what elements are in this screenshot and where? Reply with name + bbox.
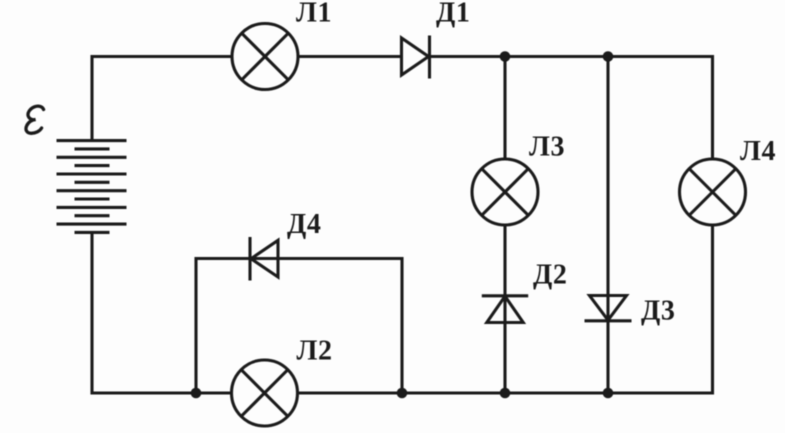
battery E: short plate 2 <box>75 164 110 167</box>
diode D1 <box>402 36 430 79</box>
wire: bypass loop around lamp L2 with diode D4 <box>196 259 402 394</box>
label EMF script E <box>26 106 44 133</box>
battery E: short plate 3 <box>75 181 110 184</box>
lamp L2 <box>232 360 298 426</box>
svg-text:Л4: Л4 <box>740 136 776 167</box>
svg-text:Л3: Л3 <box>529 132 565 163</box>
battery E: long plate 5 <box>57 206 127 209</box>
wire: diode D3 branch full vertical <box>606 57 609 394</box>
battery E: long plate 4 <box>57 189 127 192</box>
wire: left vertical from battery top up and top wire to lamp L1 <box>92 57 232 142</box>
wire: lamp L2 left lead along bottom wire to bottom-left corner, up to battery bottom <box>92 233 232 394</box>
junction dot on top wire at D3 branch <box>603 51 614 62</box>
diode D2 <box>482 296 528 323</box>
battery E: short plate 6 <box>75 231 110 234</box>
svg-text:Л1: Л1 <box>296 0 332 29</box>
svg-text:Д4: Д4 <box>287 209 321 240</box>
junction dot on top wire at L3 branch <box>500 51 511 62</box>
battery E: long plate 3 <box>57 172 127 175</box>
wire: lamp L4 bottom down to bottom-right corner and bottom wire to lamp L2 right <box>298 225 713 394</box>
battery E: long plate 1 <box>57 139 127 142</box>
svg-text:Д2: Д2 <box>533 260 567 291</box>
battery E: short plate 5 <box>75 214 110 217</box>
junction dot bottom wire at L3 branch <box>500 388 511 399</box>
battery E: short plate 4 <box>75 197 110 200</box>
wire: branch of lamp L3 upper segment from top wire junction down to lamp L3 <box>503 57 506 161</box>
junction dot bottom wire at bypass left <box>191 388 202 399</box>
svg-text:Д1: Д1 <box>436 0 470 29</box>
wire: diode D1 cathode to top-right corner, down to lamp L4 top <box>430 57 713 161</box>
junction dot bottom wire at bypass right <box>397 388 408 399</box>
lamp L3 <box>472 159 538 225</box>
battery E: long plate 2 <box>57 156 127 159</box>
wire: branch of lamp L3 lower segment through diode D2 to bottom wire <box>503 225 506 394</box>
svg-text:Л2: Л2 <box>297 336 333 367</box>
wire: lamp L1 right lead to diode D1 <box>299 55 402 58</box>
battery E: short plate 1 <box>75 147 110 150</box>
svg-text:Д3: Д3 <box>641 296 675 327</box>
battery E: long plate 6 <box>57 223 127 226</box>
diode D4 <box>250 237 278 281</box>
lamp L4 <box>680 159 746 225</box>
lamp L1 <box>232 24 298 90</box>
junction dot bottom wire at D3 branch <box>603 388 614 399</box>
diode D3 <box>585 296 632 321</box>
